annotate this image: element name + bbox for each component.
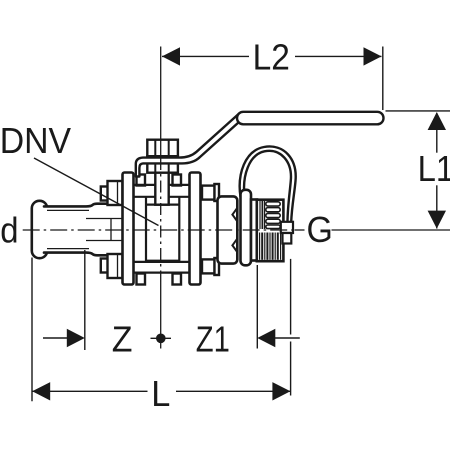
svg-text:G: G: [307, 210, 333, 250]
svg-text:L: L: [151, 373, 170, 414]
svg-text:Z: Z: [112, 319, 133, 359]
svg-text:L2: L2: [253, 37, 290, 78]
svg-text:d: d: [0, 211, 18, 251]
svg-text:L1: L1: [418, 149, 450, 189]
svg-text:DNV: DNV: [0, 121, 72, 161]
svg-text:Z1: Z1: [196, 319, 230, 360]
